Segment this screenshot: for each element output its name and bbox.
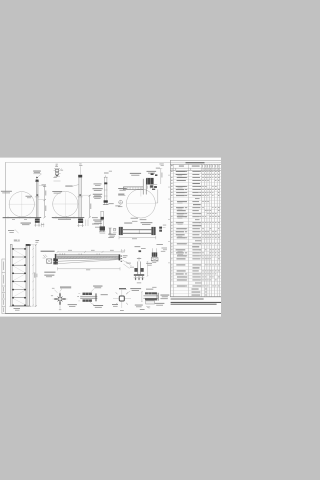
beam detail dimension below [119, 237, 156, 239]
sheet frame left line [4, 162, 6, 313]
view2 footing dim ticks [85, 219, 87, 226]
hex detail top right label [130, 287, 141, 290]
stamp divider [2, 305, 5, 307]
stamp rotated text [2, 262, 5, 271]
base detail right dim line [147, 262, 149, 277]
view2 right labels upper [94, 183, 102, 186]
bolt ticks above beam left [59, 253, 61, 255]
view2 ground base line [52, 216, 85, 218]
right X-box cluster [152, 252, 157, 256]
view2 circle centerlines [52, 203, 78, 205]
view1 column cap [36, 180, 39, 182]
mid detail bottom hatch plate [83, 299, 92, 301]
view3 bracket column [142, 179, 144, 195]
long beam body [56, 254, 119, 256]
flange detail arms [59, 293, 60, 296]
ladder rung 6 [12, 289, 26, 291]
flange detail small marks [51, 294, 53, 297]
view2 right labels [93, 187, 103, 190]
spec table outer borders [170, 159, 221, 161]
view3 bottom texts [131, 217, 138, 220]
ladder rung 4 [12, 272, 26, 274]
base detail labels right [146, 262, 152, 265]
small marks right of lower pedestal [114, 228, 116, 231]
leaders near beam right end [124, 264, 130, 269]
view2 column mid marks [79, 194, 81, 195]
lower pedestal labels [92, 216, 98, 219]
beam detail left mini view [108, 228, 110, 234]
ladder diagonal brace [13, 266, 25, 273]
view1 column mid marks [37, 194, 39, 195]
ladder diagonal brace [13, 299, 25, 305]
stamp rotated text [2, 300, 5, 305]
flange detail ring [58, 297, 62, 301]
stamp rotated text [2, 294, 5, 299]
small label above ladder area [35, 239, 39, 242]
beam detail right mini detail [159, 227, 162, 229]
view3 leader vertical [157, 190, 159, 204]
ladder rung 7 [12, 297, 26, 299]
page background [0, 0, 221, 480]
view2 column footing [78, 219, 83, 223]
view2 bottom right labels [93, 219, 103, 222]
ladder diagonal brace [13, 274, 25, 281]
flange detail crosshair [59, 292, 61, 307]
right detail right flange [156, 293, 158, 301]
bolt ticks above beam mid [78, 253, 80, 255]
stamp divider [2, 285, 5, 287]
small texts above lower pedestal [109, 202, 114, 205]
right detail labels bottom [155, 302, 165, 305]
long beam left label [41, 251, 55, 252]
long beam right end labels [123, 254, 128, 257]
view3 hatched box [146, 178, 153, 184]
right detail top hatch [145, 292, 157, 294]
leader specks left of table [168, 174, 169, 177]
ladder rung 8 [12, 304, 26, 306]
view1 label left (elevation mark) [1, 190, 12, 193]
view1 ground base line [3, 216, 42, 218]
ladder rung 3 [12, 264, 26, 266]
view3 left labels [118, 187, 127, 190]
label near table left [162, 247, 168, 250]
right detail labels right [160, 294, 169, 297]
view1 footing dimension ticks [41, 223, 43, 227]
right detail lower box [146, 301, 155, 304]
stamp rotated text [2, 287, 5, 292]
label under view1 left [8, 229, 14, 232]
flange detail label below right [68, 303, 77, 306]
hex detail label above [119, 287, 126, 290]
spec table body rows [171, 170, 172, 173]
hex detail ring [119, 296, 124, 301]
drawing sheet [0, 158, 221, 317]
beam detail labels above [124, 222, 132, 225]
view1 circle centerlines [9, 203, 36, 205]
spec table header lines [170, 167, 221, 169]
hex detail crosshair [121, 290, 123, 309]
mid detail labels [93, 285, 102, 288]
ladder diagonal brace [13, 290, 25, 297]
ladder diagonal brace [13, 258, 25, 265]
view1 label near circle top [26, 195, 33, 198]
long beam right end plate and bolts [119, 254, 121, 260]
view2 antenna marks above [79, 163, 81, 166]
stamp rotated text [2, 275, 5, 284]
view3 circle centerline [140, 189, 142, 196]
view1 column footing [35, 219, 40, 223]
stamp rotated text [2, 308, 5, 313]
stamp divider [2, 292, 5, 294]
mid detail right flange [94, 293, 96, 301]
view1 label bottom [21, 222, 32, 225]
tiny marks near view1 top right [56, 163, 58, 166]
view3 top-right small texts [159, 163, 163, 166]
sheet frame top line [5, 161, 221, 163]
view1 column shaft [36, 182, 38, 219]
view3 marks above hatched box [151, 173, 154, 175]
ladder bottom base [10, 305, 32, 307]
ladder top bracket [26, 244, 31, 246]
long beam left connection cluster [43, 255, 45, 258]
view3 circle centerlines [127, 203, 155, 205]
view2 floor level label [58, 218, 71, 221]
view3 top labels [130, 172, 141, 175]
note line 1 [171, 299, 204, 300]
hex detail diagonals [116, 292, 118, 294]
ladder rung 1 [12, 248, 26, 250]
ladder rung 2 [12, 256, 26, 258]
ladder diagonal brace [13, 282, 25, 289]
view3 right dimension [160, 168, 162, 184]
view3 dark marks right of platform [150, 185, 153, 187]
ladder dimension lines [32, 245, 34, 307]
view1 small labels right of column [42, 184, 47, 187]
right detail bottom hatch [145, 299, 157, 301]
upper pedestal label top [104, 172, 109, 175]
view3 left mini circle detail [119, 200, 123, 204]
column base (shoe) detail [137, 262, 139, 275]
ladder rung 5 [12, 280, 26, 282]
right detail left dim [141, 292, 143, 302]
view1 label top [33, 170, 41, 173]
cluster above base detail [135, 245, 141, 248]
flange detail diagonal gussets [62, 296, 63, 297]
view2 top-left bracket detail [55, 169, 58, 171]
view1 anchor bolts [35, 223, 37, 226]
hex detail bottom mark [120, 309, 124, 312]
stray label lower [157, 243, 163, 246]
view2 column shaft [79, 177, 82, 218]
ladder side note labels [44, 271, 55, 274]
lower pedestal [100, 212, 102, 232]
view2 tank circle [53, 191, 78, 216]
view3 platform deck [123, 186, 143, 188]
mid detail top hatch plate [83, 293, 92, 295]
view1 small parts above cap [36, 176, 38, 179]
flange detail label above [60, 286, 71, 289]
pedestal label left [93, 193, 102, 196]
mid detail web lines [80, 295, 97, 297]
stamp divider [2, 272, 5, 274]
spec table column lines [173, 164, 175, 297]
view2 dimension line right [89, 195, 91, 217]
ladder right rail column [26, 244, 29, 306]
sheet frame bottom line [5, 313, 221, 315]
ladder left rail [10, 244, 12, 306]
long beam bottom dimension [58, 268, 121, 270]
view1 dimension line right [44, 186, 46, 218]
stamp strip outline [2, 259, 5, 314]
ladder top label [14, 239, 17, 242]
beam detail body [123, 228, 151, 230]
long beam left end plate [55, 254, 57, 264]
view3 tank circle [126, 189, 155, 218]
long beam top dimension line [58, 251, 124, 253]
hex detail right label [135, 304, 143, 307]
view2 left label [52, 190, 62, 193]
mid detail left ticks [78, 292, 80, 294]
view1 tank circle [9, 192, 34, 217]
hex detail bottom-left label [112, 303, 118, 306]
note line 2 (dark) [171, 302, 221, 303]
flange detail top-left tick [55, 290, 58, 293]
spec table title [186, 162, 205, 163]
view2 mid-left label [65, 185, 72, 188]
view2 bracket extra marks [56, 175, 58, 177]
upper pedestal [104, 177, 106, 204]
spec table header texts [179, 165, 184, 168]
beam detail right end plate (hatched) [151, 227, 155, 235]
ladder diagonal brace [13, 250, 25, 257]
view2 column cap [78, 175, 82, 178]
view1 base line ticks [7, 216, 9, 218]
stamp divider [2, 298, 5, 300]
right detail top label [146, 288, 153, 291]
view3 small ticks under bracket [146, 186, 148, 189]
view2 anchor bolts [78, 223, 80, 227]
right detail web [143, 295, 158, 297]
view2 base line ticks [55, 216, 57, 218]
beam detail left end plate (hatched) [119, 227, 123, 235]
